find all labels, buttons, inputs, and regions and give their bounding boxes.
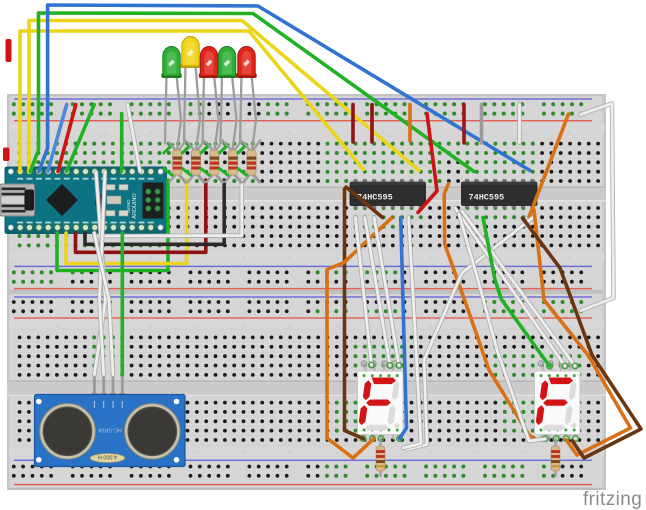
7-segment display DS1 <box>358 361 404 439</box>
svg-text:NANO: NANO <box>126 199 131 213</box>
svg-text:35: 35 <box>334 324 340 329</box>
green wire stub pair near resistor R3 <box>201 145 210 154</box>
wire blue D9 long loop <box>39 5 530 172</box>
svg-text:ARDUINO: ARDUINO <box>132 193 138 219</box>
wire blue rail to D9 <box>48 105 67 172</box>
svg-text:25: 25 <box>241 130 247 135</box>
wire white rail to row A col54 <box>517 105 521 143</box>
top breadboard upper power rails <box>12 102 16 106</box>
wire white nano to sensor pin3 <box>94 233 113 375</box>
74HC595 shift register U2 <box>350 179 426 208</box>
wire yellow D11 long loop <box>29 21 419 172</box>
breadboard top <box>7 94 606 292</box>
wire white chip1 to display1 hole3 <box>374 218 399 366</box>
LED yellow <box>180 37 200 151</box>
wire white nano to sensor pin2 <box>100 172 106 375</box>
svg-text:20: 20 <box>194 450 200 455</box>
resistor R1 220 <box>169 141 186 183</box>
svg-text:30: 30 <box>287 255 293 260</box>
LED green 1 <box>161 47 181 150</box>
wire blue chip1 to display1 <box>400 218 407 439</box>
svg-text:55: 55 <box>520 255 526 260</box>
bottom breadboard lower power rails <box>12 465 16 469</box>
red wire stub top-left <box>6 39 12 62</box>
green wire stub pair near resistor R4 <box>220 145 229 154</box>
LED red 1 <box>199 47 219 150</box>
svg-text:74HC595: 74HC595 <box>469 193 505 203</box>
LED red 2 <box>236 47 256 150</box>
wire green U nano to row f col16 <box>57 180 168 271</box>
wire white chip1 to display1 hole1 <box>355 218 371 366</box>
wire black U nano to row f col22 <box>85 180 224 244</box>
column number labels <box>56 130 573 455</box>
wire white chip2 to display2 hole1 <box>455 208 565 366</box>
svg-text:15: 15 <box>147 130 153 135</box>
bottom breadboard main hole grid <box>18 336 22 340</box>
wire white chip2 to display2 hole2 <box>462 211 575 366</box>
wire brown chip2 to display2 right loop <box>523 218 642 458</box>
svg-text:20: 20 <box>194 324 200 329</box>
resistor R2 220 <box>188 141 205 183</box>
wire orange rail to row A col41 <box>408 105 412 142</box>
wire brown diagonal over chip1 <box>346 187 383 218</box>
wire red rail to row A col48 <box>462 105 466 144</box>
green wire stub pair near resistor R2 <box>182 145 191 154</box>
svg-text:60: 60 <box>567 130 573 135</box>
green wire stub pair near resistor R1 <box>164 145 173 154</box>
svg-text:25: 25 <box>241 450 247 455</box>
resistor R4 220 <box>225 141 242 183</box>
svg-text:35: 35 <box>334 450 340 455</box>
wire white right edge loop <box>581 104 614 311</box>
svg-text:15: 15 <box>147 255 153 260</box>
wire white chip2 to display2 bottom left <box>459 214 545 441</box>
wire red rail2 to chip1 row g bent <box>418 114 437 213</box>
wire white chip1 to display1 bottom right a <box>403 218 421 449</box>
svg-text:50: 50 <box>474 130 480 135</box>
svg-text:20: 20 <box>194 255 200 260</box>
red wire stub left edge <box>3 148 10 162</box>
7-segment display DS2 <box>535 361 581 439</box>
wire green rail to D7 <box>67 105 95 172</box>
green wire stub pair near resistor R5 <box>238 145 247 154</box>
svg-text:4.000 H: 4.000 H <box>98 454 117 460</box>
resistor R5 220 <box>244 141 261 183</box>
wire yellow D12 long loop <box>20 31 364 172</box>
resistor R3 220 <box>206 141 223 183</box>
svg-text:45: 45 <box>427 450 433 455</box>
svg-text:25: 25 <box>241 324 247 329</box>
svg-text:25: 25 <box>241 255 247 260</box>
wire green nano to sensor pin4 <box>121 233 125 375</box>
svg-text:10: 10 <box>101 130 107 135</box>
svg-text:30: 30 <box>287 324 293 329</box>
wire white chip2 to display1 right long <box>407 218 533 450</box>
wire orange chip2 area to display1 long <box>327 218 392 458</box>
wire orange chip2 to display2 right loop <box>534 210 631 455</box>
svg-text:60: 60 <box>567 255 573 260</box>
wire yellow U nano to row f col18 <box>66 180 187 264</box>
wire gray rail to row A col50 <box>480 105 484 144</box>
wire white nano to sensor pin1 <box>94 172 105 375</box>
Arduino Nano U1 <box>0 167 167 234</box>
wire maroon rail to row A col38 <box>370 105 374 143</box>
resistor R7 <box>551 439 560 477</box>
svg-text:HC-SR04: HC-SR04 <box>98 427 122 433</box>
wire white U row i col8 to row f col24 <box>95 180 242 236</box>
top breadboard lower power rails <box>12 270 16 274</box>
resistor R6 <box>376 439 385 477</box>
svg-text:fritzing: fritzing <box>583 489 642 510</box>
wire brown long to display1 <box>345 189 364 439</box>
connection hole rings below displays <box>360 436 366 442</box>
wire green rail to GND vertical <box>120 114 124 172</box>
top breadboard main hole grid <box>18 142 22 146</box>
svg-text:50: 50 <box>474 450 480 455</box>
breadboard bottom <box>7 292 606 490</box>
wire maroon rail to row A col36 <box>351 105 355 143</box>
svg-text:30: 30 <box>287 130 293 135</box>
wire green D10 long loop <box>30 13 474 172</box>
74HC595 shift register U3 <box>462 179 538 208</box>
wire white rail to TX1 <box>128 105 141 172</box>
svg-text:15: 15 <box>147 324 153 329</box>
HC-SR04 ultrasonic sensor <box>35 375 186 467</box>
svg-text:35: 35 <box>334 255 340 260</box>
wire orange rail2 to chip2 row g long <box>529 114 569 217</box>
connection rings above displays <box>369 362 375 368</box>
svg-text:45: 45 <box>427 255 433 260</box>
svg-text:30: 30 <box>287 450 293 455</box>
LED green 2 <box>217 47 237 150</box>
wire dark-red U nano to row f col20 <box>76 180 206 252</box>
wire orange chip2-left to display2 bottom <box>444 184 535 439</box>
wire white chip1 to display1 hole2 <box>365 218 390 366</box>
wire green chip2 to display2 <box>483 218 550 367</box>
svg-text:45: 45 <box>427 324 433 329</box>
svg-text:40: 40 <box>380 130 386 135</box>
svg-text:55: 55 <box>520 450 526 455</box>
wire red rail to D8 <box>58 105 76 172</box>
bottom breadboard upper power rails <box>12 300 16 304</box>
